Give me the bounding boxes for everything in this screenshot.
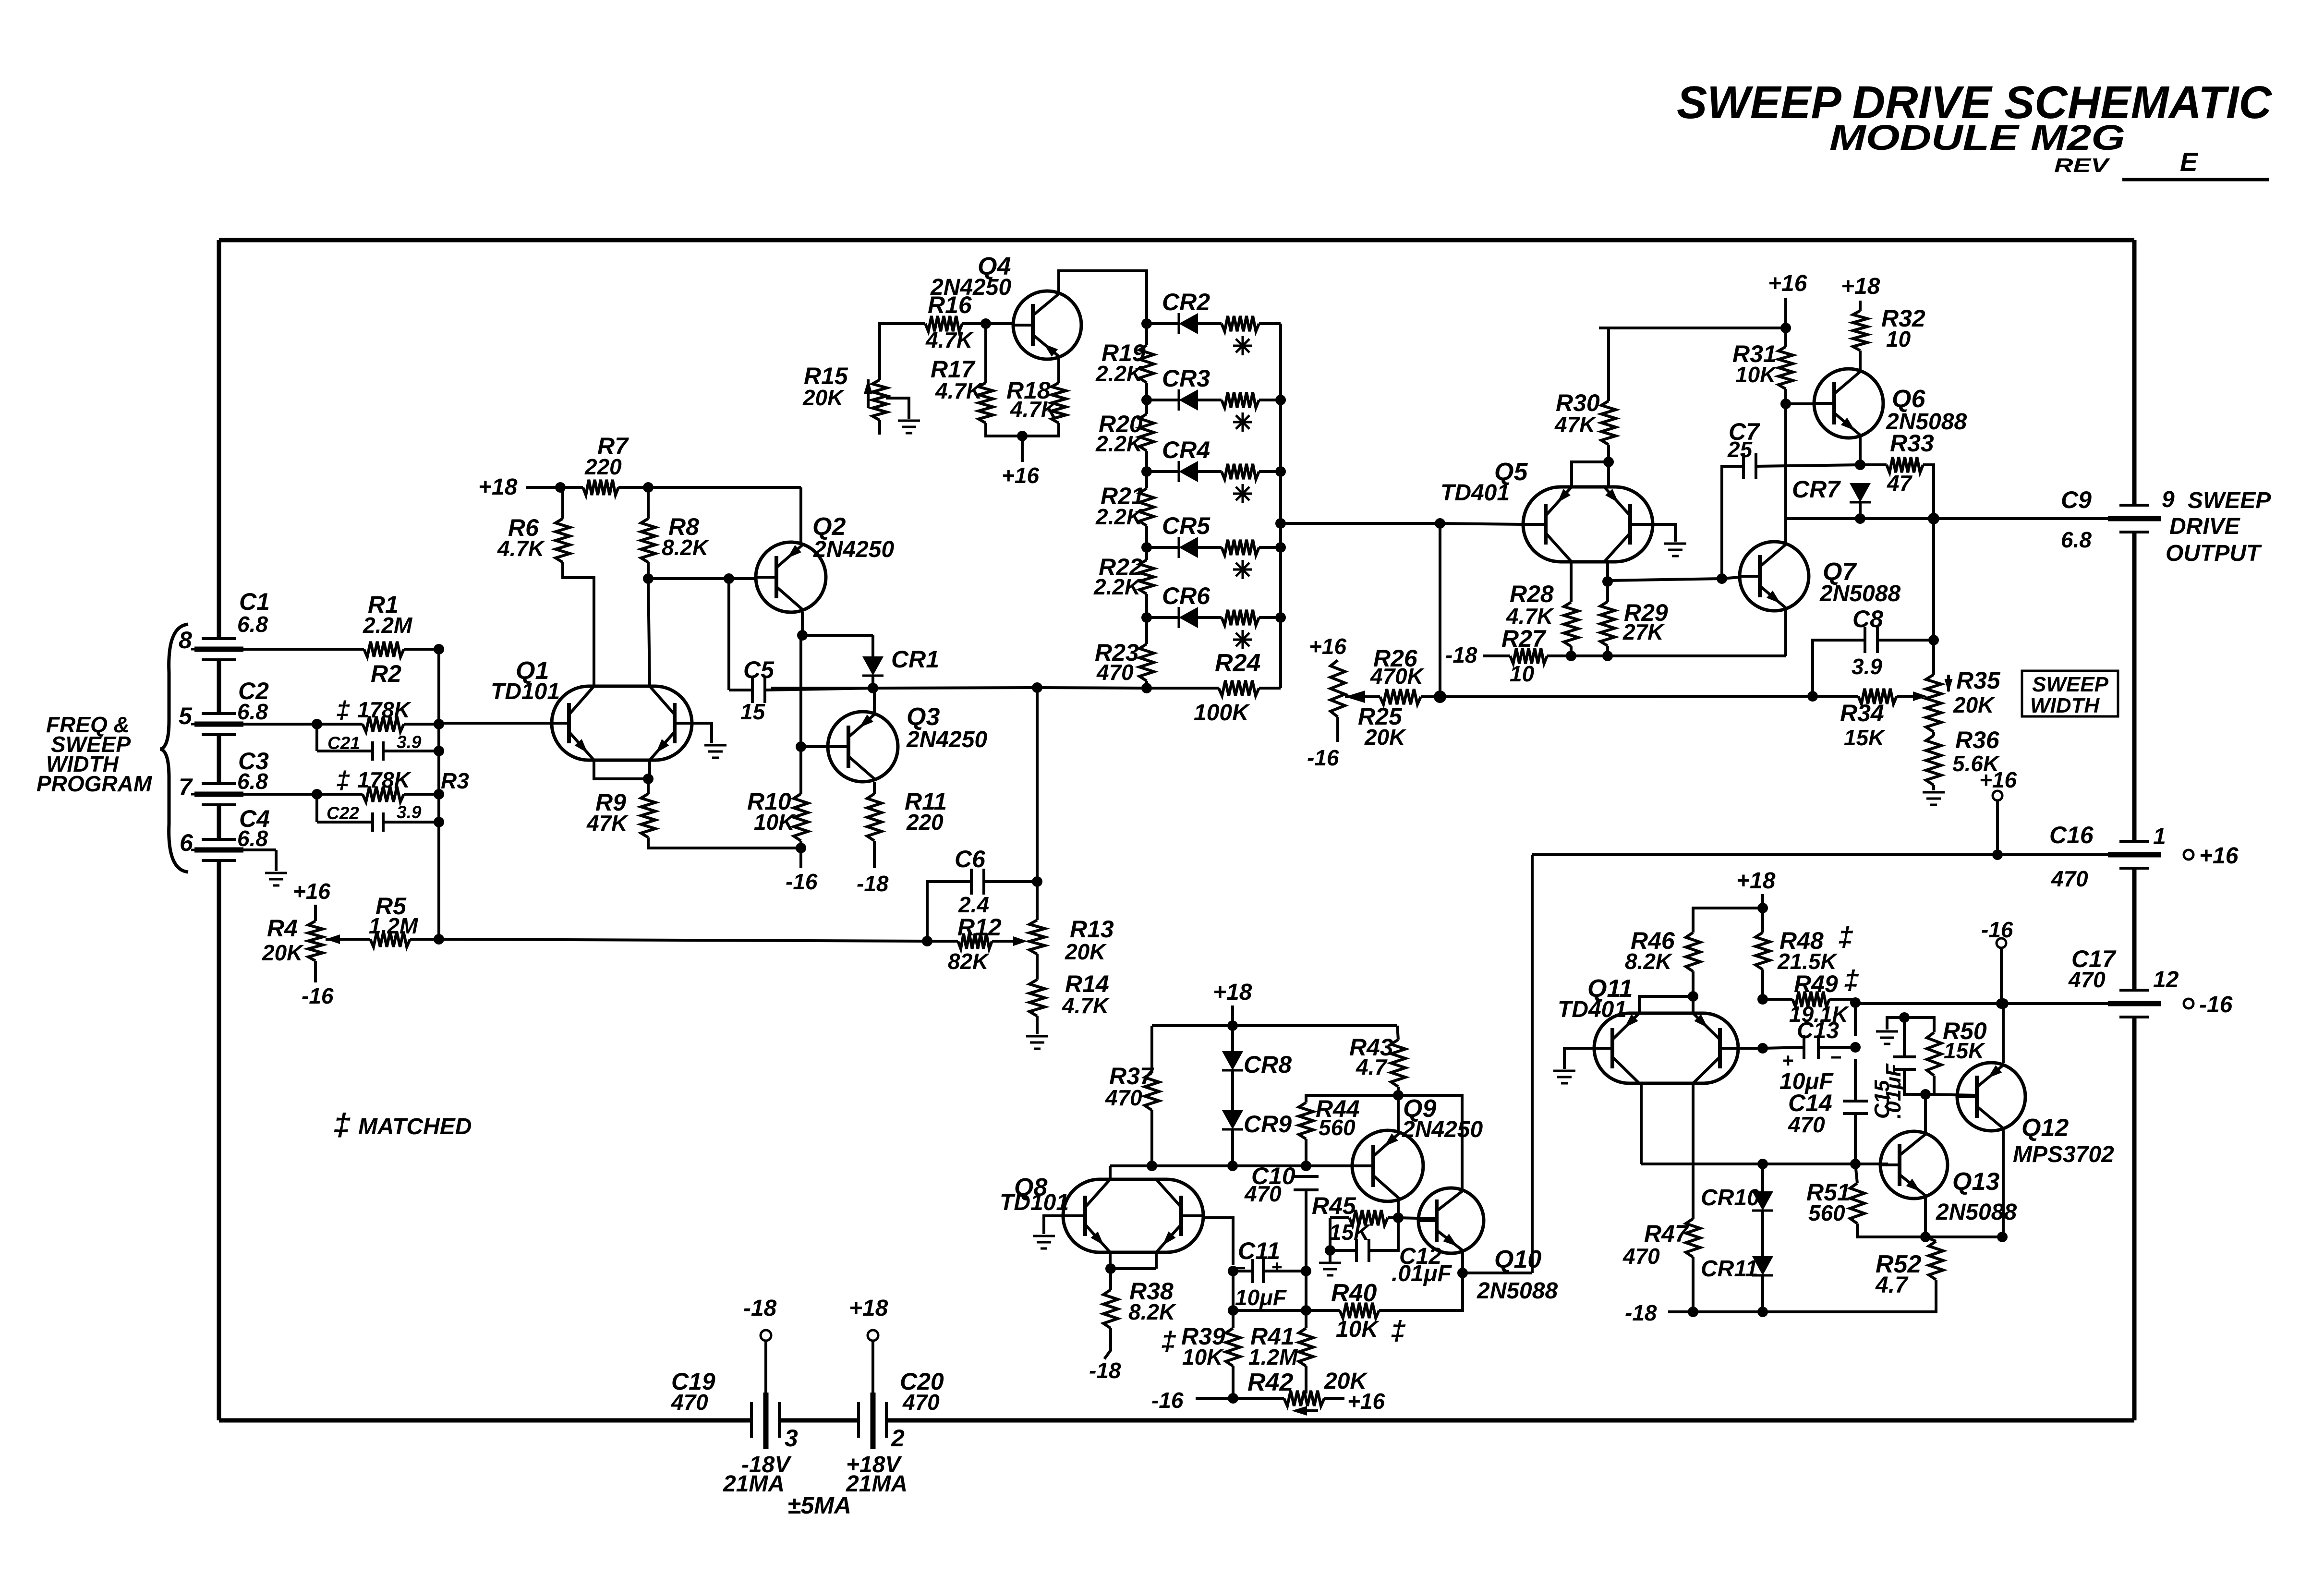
wire (1855, 1002, 2108, 1005)
resistor R12 (927, 914, 1028, 974)
resistor R38 (1103, 1269, 1176, 1328)
wire (1887, 1018, 1904, 1030)
svg-text:+18: +18 (1841, 274, 1880, 299)
svg-text:Q10: Q10 (1494, 1246, 1541, 1273)
wire (410, 938, 439, 941)
pin 6 label (180, 829, 194, 856)
wire (243, 723, 317, 726)
svg-text:10K: 10K (1336, 1317, 1380, 1342)
svg-text:R34: R34 (1840, 700, 1884, 727)
junction (1032, 682, 1042, 693)
resistor R33 (1860, 430, 1934, 519)
svg-text:4.7K: 4.7K (935, 378, 983, 403)
svg-text:1.2M: 1.2M (369, 913, 419, 938)
resistor R37 (1105, 1026, 1159, 1110)
svg-text:Q12: Q12 (2021, 1114, 2069, 1142)
svg-text:82K: 82K (948, 949, 990, 974)
svg-text:CR7: CR7 (1792, 476, 1841, 503)
svg-text:3.9: 3.9 (397, 732, 422, 752)
potentiometer R13 (1029, 882, 1114, 964)
svg-text:‡: ‡ (336, 766, 350, 794)
ground (265, 873, 287, 885)
svg-text:1: 1 (2153, 824, 2166, 849)
matched note (333, 1107, 472, 1142)
junction (1688, 1307, 1698, 1317)
wire (1722, 466, 1743, 579)
wire (986, 322, 1013, 325)
wire (1104, 1328, 1111, 1359)
junction (1434, 691, 1446, 703)
wire (1196, 1397, 1233, 1400)
capacitor C10 (1244, 1163, 1319, 1206)
+18 label (1736, 868, 1776, 894)
svg-text:+18: +18 (1213, 980, 1252, 1005)
wire (648, 760, 651, 779)
svg-text:470: 470 (1244, 1181, 1282, 1206)
wire (1531, 855, 1534, 1273)
svg-text:21MA: 21MA (846, 1471, 908, 1497)
svg-text:TD101: TD101 (491, 679, 560, 704)
diode CR3 (1147, 365, 1281, 432)
diode CR6 (1147, 582, 1281, 649)
svg-text:-16: -16 (2199, 992, 2233, 1018)
svg-text:+16: +16 (1768, 271, 1807, 296)
junction (797, 630, 808, 641)
resistor R44 (1299, 1095, 1360, 1140)
-18V 21MA label (723, 1452, 792, 1497)
svg-text:2N4250: 2N4250 (906, 727, 987, 752)
junction (1228, 1266, 1238, 1276)
svg-text:SWEEP: SWEEP (2188, 488, 2271, 513)
junction (1602, 651, 1613, 661)
resistor R7 (560, 433, 648, 495)
svg-text:MODULE M2G: MODULE M2G (1829, 118, 2125, 157)
svg-text:±5MA: ±5MA (787, 1492, 851, 1519)
junction (1855, 513, 1865, 524)
svg-text:‡: ‡ (1391, 1315, 1406, 1346)
svg-text:10K: 10K (1182, 1345, 1224, 1369)
wire (1336, 717, 1339, 742)
capacitor C9 (2061, 486, 2161, 552)
potentiometer R42 (1233, 1366, 1368, 1416)
svg-text:4.7: 4.7 (1875, 1272, 1909, 1298)
pin 1 label (2153, 824, 2166, 849)
resistor R1 (363, 591, 413, 657)
junction (1457, 1268, 1468, 1278)
wire (1305, 1190, 1307, 1271)
transistor Q12 (1957, 1063, 2114, 1167)
ground (1319, 1250, 1341, 1275)
svg-text:47K: 47K (1554, 412, 1597, 437)
pin 2 label (891, 1425, 905, 1452)
-18 label (1625, 1300, 1657, 1325)
potentiometer R25 (1331, 660, 1406, 750)
wire (1463, 1272, 1532, 1274)
junction (1928, 513, 1939, 524)
junction (1275, 395, 1286, 623)
wire (1859, 436, 1862, 465)
transistor Q2 (756, 513, 894, 612)
svg-text:10μF: 10μF (1235, 1285, 1287, 1310)
svg-text:-16: -16 (302, 983, 334, 1008)
svg-text:3.9: 3.9 (397, 802, 422, 822)
svg-text:‡: ‡ (336, 696, 350, 724)
svg-text:9: 9 (2162, 487, 2175, 512)
svg-text:R33: R33 (1890, 430, 1934, 457)
svg-text:CR3: CR3 (1162, 365, 1210, 392)
resistor R34 (1813, 689, 1927, 750)
junction (1757, 994, 1768, 1005)
svg-text:-18: -18 (857, 871, 889, 896)
wire (873, 782, 876, 794)
SWEEP DRIVE OUTPUT label (2166, 488, 2271, 566)
resistor R14 (1029, 954, 1110, 1018)
wire (1109, 1166, 1112, 1179)
svg-text:+16: +16 (1347, 1389, 1385, 1414)
svg-text:+16: +16 (1979, 767, 2017, 792)
junction (980, 318, 991, 329)
wire (1859, 301, 1862, 311)
junction (1928, 635, 1939, 645)
wire (801, 745, 828, 748)
wire (439, 722, 552, 725)
ground (704, 745, 726, 758)
pin 8 label (179, 627, 192, 654)
ground (1553, 1071, 1575, 1083)
resistor R36 (1926, 727, 2000, 785)
junction (1141, 395, 1152, 405)
+16 terminal (1979, 767, 2017, 855)
svg-text:4.7K: 4.7K (1010, 397, 1058, 422)
wire (1692, 1083, 1695, 1219)
svg-text:470: 470 (1788, 1112, 1825, 1137)
wire (1854, 1059, 1857, 1101)
junction (1147, 1161, 1157, 1171)
svg-text:+: + (1782, 1049, 1794, 1071)
wire (1641, 1163, 1888, 1165)
wire (1784, 389, 1787, 404)
wire (243, 850, 276, 871)
svg-text:+16: +16 (293, 879, 330, 904)
resistor R50 (1904, 1018, 1987, 1076)
wire (1818, 1046, 1855, 1049)
wire (873, 688, 876, 715)
-18 label (1089, 1358, 1121, 1383)
svg-text:2N5088: 2N5088 (1819, 581, 1900, 606)
+16 label (1768, 271, 1807, 296)
diode CR7 (1792, 476, 1871, 503)
wire (1152, 1024, 1397, 1027)
junction (1807, 691, 1818, 702)
svg-text:-18: -18 (1089, 1358, 1121, 1383)
svg-text:R42: R42 (1247, 1369, 1293, 1396)
svg-text:470K: 470K (1370, 664, 1425, 689)
wire (1904, 1069, 1925, 1094)
diode CR5 (1147, 512, 1281, 579)
svg-text:-18: -18 (1445, 642, 1477, 667)
wire (1639, 996, 1693, 1013)
resistor R11 (867, 788, 947, 841)
junction (1393, 1090, 1404, 1101)
svg-text:C8: C8 (1852, 606, 1883, 632)
svg-text:100K: 100K (1194, 700, 1250, 726)
potentiometer R4 (262, 915, 323, 965)
wire (1570, 560, 1573, 602)
junction (868, 683, 878, 693)
wire (1925, 1236, 2003, 1238)
resistor R32 (1853, 305, 1925, 351)
diode CR9 (1222, 1070, 1292, 1138)
junction (434, 934, 444, 945)
junction (1855, 460, 1865, 470)
svg-text:10K: 10K (754, 810, 796, 835)
junction (1141, 612, 1152, 623)
svg-text:470: 470 (1096, 660, 1134, 685)
svg-text:R40: R40 (1331, 1279, 1377, 1307)
svg-text:+16: +16 (2199, 843, 2239, 869)
+18 supply label (849, 1296, 888, 1321)
junction (1227, 1161, 1238, 1171)
svg-text:470: 470 (902, 1390, 940, 1415)
resistor R41 (1248, 1310, 1313, 1369)
ground (1923, 792, 1945, 805)
resistor R20 (1095, 383, 1154, 456)
+18 label (1841, 274, 1880, 299)
resistor R17 (931, 356, 993, 423)
wire (1692, 996, 1695, 1013)
connector brace (160, 624, 188, 872)
wire (1572, 462, 1609, 487)
svg-text:8.2K: 8.2K (662, 535, 710, 560)
capacitor C12 (1356, 1239, 1452, 1286)
svg-text:20K: 20K (802, 385, 845, 410)
wire (526, 486, 560, 489)
wire (1693, 908, 1763, 933)
wire (1036, 1016, 1039, 1034)
ground (1664, 544, 1686, 556)
wire (984, 324, 987, 383)
svg-text:5: 5 (179, 703, 193, 729)
svg-text:2: 2 (891, 1425, 905, 1452)
ground (1026, 1036, 1048, 1049)
resistor R30 (1554, 389, 1616, 462)
wire (1110, 1252, 1156, 1269)
svg-text:REV: REV (2054, 154, 2111, 176)
junction (1850, 1042, 1861, 1053)
svg-text:220: 220 (906, 810, 944, 835)
wire (1929, 1280, 1936, 1312)
resistor R39 (1161, 1310, 1240, 1369)
wire (1232, 1366, 1235, 1398)
junction (1920, 1089, 1931, 1100)
svg-text:‡: ‡ (1838, 921, 1853, 952)
svg-text:6.8: 6.8 (237, 699, 268, 724)
wire (878, 420, 881, 435)
svg-text:15K: 15K (1944, 1038, 1985, 1063)
transistor Q13 (1880, 1131, 2017, 1225)
svg-text:C16: C16 (2049, 822, 2094, 848)
wire (1036, 688, 1039, 882)
capacitor C17 (2068, 945, 2161, 1017)
diode CR8 (1222, 1026, 1292, 1078)
svg-text:R45: R45 (1312, 1192, 1356, 1219)
svg-text:6.8: 6.8 (237, 612, 268, 637)
svg-text:4.7K: 4.7K (497, 536, 545, 561)
wire (1532, 853, 2108, 856)
svg-text:560: 560 (1808, 1200, 1845, 1225)
svg-text:2.2K: 2.2K (1095, 361, 1144, 386)
capacitor C4 (191, 805, 270, 860)
junction (1780, 399, 1791, 409)
diode CR11 (1701, 1211, 1773, 1282)
svg-text:470: 470 (1622, 1244, 1660, 1269)
svg-text:R2: R2 (371, 660, 401, 687)
dual transistor Q8 (1000, 1174, 1203, 1252)
svg-text:R35: R35 (1956, 667, 2001, 694)
wire (1570, 646, 1573, 656)
junction (643, 482, 654, 493)
svg-text:OUTPUT: OUTPUT (2166, 541, 2262, 566)
wire (1761, 969, 1764, 999)
junction (1920, 1232, 1931, 1242)
ground (1033, 1236, 1055, 1248)
capacitor C6 (955, 846, 989, 917)
resistor R18 (1006, 377, 1066, 423)
svg-text:20K: 20K (262, 940, 304, 965)
wire (1607, 328, 1610, 401)
diode CR10 (1701, 1164, 1773, 1211)
svg-text:10: 10 (1510, 661, 1535, 686)
wire (1305, 1271, 1307, 1310)
+18 label (478, 474, 518, 500)
svg-text:R4: R4 (267, 915, 298, 942)
resistor R40 (1306, 1273, 1463, 1346)
wire (1057, 357, 1060, 383)
wire (801, 612, 804, 635)
pin 9 label (2162, 487, 2175, 512)
junction (1850, 1159, 1861, 1169)
wire (1571, 654, 1786, 657)
wire (1934, 517, 2108, 520)
svg-text:CR11: CR11 (1701, 1256, 1758, 1282)
plus minus 5MA label (787, 1492, 851, 1519)
svg-text:C6: C6 (955, 846, 986, 872)
junction (796, 741, 806, 752)
junction (1141, 542, 1152, 553)
svg-text:2.2M: 2.2M (363, 613, 413, 638)
svg-text:-16: -16 (786, 869, 818, 894)
diode CR4 (1147, 436, 1281, 503)
wire (1279, 324, 1282, 688)
junction (555, 482, 566, 493)
+16 label (1347, 1389, 1385, 1414)
svg-text:+18: +18 (849, 1296, 888, 1321)
wire (1233, 1309, 1306, 1312)
wire (1722, 577, 1740, 579)
svg-text:DRIVE: DRIVE (2169, 514, 2241, 539)
+16 label (293, 879, 330, 904)
wire (1738, 1047, 1763, 1050)
svg-text:1.2M: 1.2M (1248, 1345, 1298, 1369)
svg-text:47K: 47K (586, 811, 629, 836)
wire (1609, 579, 1722, 581)
svg-text:15K: 15K (1844, 725, 1886, 750)
wire (317, 793, 363, 796)
junction (1850, 997, 1861, 1008)
wire (1203, 1218, 1233, 1265)
svg-text:C21: C21 (327, 733, 360, 753)
wire (799, 841, 802, 868)
svg-text:CR2: CR2 (1162, 289, 1210, 315)
wire (692, 723, 712, 743)
svg-text:8.2K: 8.2K (1625, 949, 1673, 974)
wire (1233, 1270, 1253, 1272)
resistor R10 (747, 788, 808, 841)
wire (873, 841, 876, 868)
wire (1021, 436, 1024, 462)
junction (1603, 457, 1614, 467)
junction (643, 774, 654, 784)
-18 label (857, 871, 889, 896)
junction (434, 644, 444, 654)
node sweep rate wire (1440, 696, 1813, 697)
pin 5 label (179, 703, 193, 729)
potentiometer R35 (1926, 640, 2001, 732)
power terminal 2 (868, 1330, 878, 1393)
dual transistor Q11 (1558, 975, 1738, 1083)
+16 output terminal (2184, 843, 2239, 869)
junction (1757, 1159, 1768, 1169)
wire (1232, 1271, 1235, 1310)
svg-text:R36: R36 (1955, 727, 2000, 753)
svg-text:PROGRAM: PROGRAM (36, 771, 153, 796)
svg-text:R49: R49 (1794, 970, 1838, 997)
resistor R27 (1483, 625, 1571, 686)
svg-text:+18: +18 (478, 474, 518, 500)
wire (1859, 351, 1862, 371)
wire (1932, 785, 1935, 790)
wire (439, 939, 927, 941)
-16 label (786, 869, 818, 894)
wire (648, 577, 729, 580)
wire (1925, 1094, 1977, 1095)
wire (1150, 1110, 1153, 1166)
resistor R31 (1732, 328, 1793, 389)
ground (1876, 1031, 1898, 1044)
title text (1677, 77, 2273, 180)
-16 label (302, 983, 334, 1008)
svg-text:4.7K: 4.7K (1062, 993, 1110, 1018)
wire (1305, 1139, 1307, 1166)
svg-text:‡: ‡ (1161, 1326, 1176, 1357)
resistor R24 (1147, 649, 1281, 726)
wire (765, 688, 873, 690)
wire (1761, 1275, 1764, 1312)
svg-text:178K: 178K (357, 767, 412, 792)
wire (2002, 1004, 2005, 1063)
svg-text:2.2K: 2.2K (1093, 574, 1142, 599)
wire (437, 649, 440, 939)
svg-text:‡: ‡ (333, 1107, 351, 1142)
wire (1692, 1257, 1695, 1312)
svg-text:R13: R13 (1070, 916, 1114, 943)
pin 3 label (785, 1425, 798, 1452)
capacitor C20 (859, 1368, 944, 1449)
wire (404, 793, 439, 796)
svg-text:+16: +16 (1309, 634, 1346, 659)
pin 7 label (179, 774, 193, 800)
svg-text:.01μF: .01μF (1882, 1063, 1905, 1119)
